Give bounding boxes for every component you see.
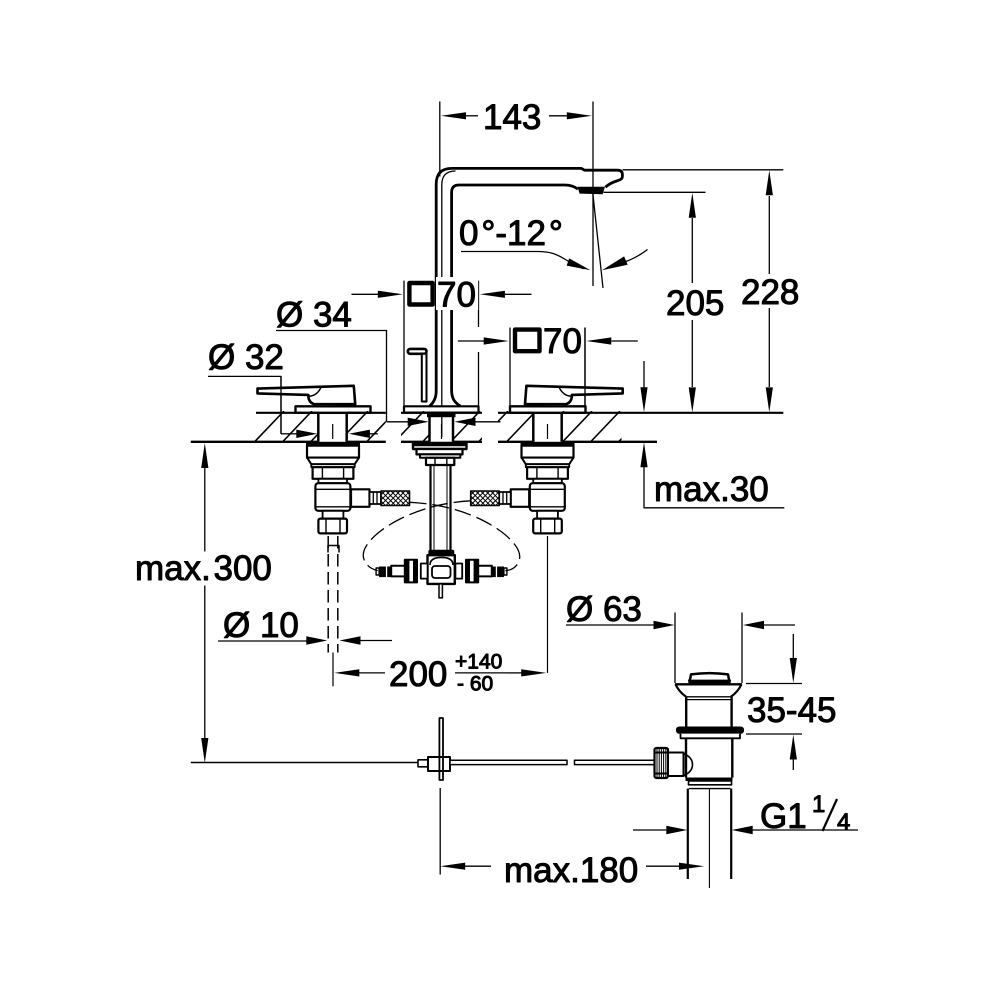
dimension dia10 [218, 606, 392, 645]
right valve flex hose [471, 489, 530, 507]
svg-text:200: 200 [389, 655, 447, 694]
dimension 35-45 [746, 634, 837, 770]
left handle lever [258, 386, 356, 404]
svg-text:Ø 10: Ø 10 [223, 606, 299, 645]
svg-text:Ø 32: Ø 32 [208, 338, 284, 377]
svg-text:Ø 34: Ø 34 [276, 296, 352, 335]
right valve centerline [547, 536, 549, 673]
rod cross coupling box [428, 757, 450, 771]
spout body [430, 168, 623, 437]
svg-text:228: 228 [741, 273, 799, 312]
svg-text:+140: +140 [455, 651, 502, 674]
dimension dia63 [566, 590, 795, 683]
pull rod knob [408, 349, 427, 402]
vertical lever rod [439, 718, 443, 780]
left shank through deck [318, 413, 346, 442]
stream line 0deg [592, 102, 594, 287]
stream line 12deg [593, 194, 603, 288]
center shank through deck [427, 413, 456, 442]
svg-text:- 60: - 60 [457, 673, 493, 696]
dimension max.180 [440, 788, 704, 890]
dimension square-70 upper (spout base) [352, 276, 532, 407]
dimension 200 +140/-60 [334, 651, 546, 696]
svg-text:max.30: max.30 [654, 470, 769, 509]
dimension square-70 right (valve escutcheon) [458, 322, 638, 410]
rod coupling bracket [328, 546, 339, 553]
dashed flex routing curve from right valve to left tee arm [363, 501, 470, 571]
tee fitting [428, 550, 455, 598]
label dia34 with leader [276, 296, 501, 427]
lip under seal [681, 734, 741, 739]
tee right arm [455, 560, 507, 583]
countertop deck with hatching [191, 411, 784, 444]
drain centerline [708, 789, 710, 888]
svg-text:70: 70 [437, 276, 476, 315]
dimension 228 [741, 170, 799, 412]
label dia32 with leader [208, 338, 378, 438]
o-ring seal (black) [676, 727, 744, 734]
dimension G1 1/4 [633, 791, 858, 836]
svg-text:max.180: max.180 [504, 851, 638, 890]
svg-text:70: 70 [543, 322, 582, 361]
dimension max.30 [640, 361, 784, 509]
cylinder [685, 697, 687, 727]
svg-text:205: 205 [666, 284, 724, 323]
right handle lever [525, 386, 623, 404]
rod stub [418, 760, 428, 767]
left valve flex hose [351, 489, 410, 507]
label 0-12 deg with leader and angle arc [459, 214, 648, 270]
right shank through deck [533, 413, 561, 442]
svg-text:4: 4 [837, 809, 850, 836]
aerator (black) [578, 187, 606, 194]
center supply tube [431, 465, 451, 551]
svg-text:1: 1 [812, 791, 825, 818]
extension line 205 top [604, 191, 706, 193]
dimension max.300 [135, 443, 272, 763]
pop-up waste drain assembly [655, 673, 745, 888]
left valve pull rod dashed dia10 [328, 536, 338, 653]
svg-text:0 °-12 °: 0 °-12 ° [459, 214, 563, 253]
horizontal pull rod reference line [191, 762, 418, 764]
push knob [690, 673, 730, 682]
svg-text:Ø 63: Ø 63 [566, 590, 642, 629]
right escutcheon [510, 406, 586, 413]
step rings [686, 778, 733, 782]
center column flange stack below deck [413, 443, 467, 465]
horizontal rod segment a [450, 760, 567, 764]
right valve body below deck [521, 442, 575, 534]
svg-text:G1: G1 [760, 797, 807, 836]
svg-text:max.: max. [135, 549, 211, 588]
sq70b extension over handle [584, 328, 586, 408]
tailpipe [687, 789, 689, 879]
dashed flex routing curve from left valve to right tee arm [410, 502, 520, 570]
dimension 143 [440, 98, 592, 177]
knurled nut [655, 748, 669, 778]
tee left arm [376, 560, 427, 583]
svg-text:143: 143 [483, 98, 541, 137]
extension line 228 top [623, 169, 784, 171]
left escutcheon [296, 406, 371, 413]
dimension 205 [666, 193, 724, 413]
dia32 leader over handle [280, 376, 282, 433]
left valve centerline [332, 653, 334, 687]
svg-text:35-45: 35-45 [747, 691, 837, 730]
svg-text:300: 300 [214, 549, 272, 588]
horizontal rod segment b [575, 760, 655, 764]
lever boss [668, 753, 684, 777]
left valve body below deck [306, 442, 360, 534]
spout base plate [404, 406, 479, 412]
flange [675, 683, 742, 685]
valve body [685, 738, 687, 777]
